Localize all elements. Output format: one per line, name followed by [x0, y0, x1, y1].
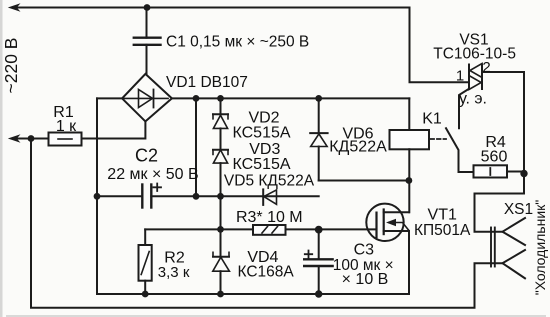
- svg-text:2: 2: [482, 59, 490, 76]
- svg-text:× 10 В: × 10 В: [342, 271, 389, 288]
- svg-text:VT1: VT1: [428, 207, 457, 224]
- svg-text:КД522А: КД522А: [329, 139, 387, 156]
- svg-text:КС515А: КС515А: [232, 156, 290, 173]
- svg-text:КП501А: КП501А: [414, 222, 471, 239]
- svg-text:560: 560: [481, 149, 508, 166]
- svg-text:XS1: XS1: [504, 201, 533, 218]
- svg-text:C2: C2: [135, 146, 158, 166]
- svg-text:ТС106-10-5: ТС106-10-5: [433, 46, 516, 63]
- svg-text:R3* 10 М: R3* 10 М: [236, 209, 303, 226]
- svg-text:1 к: 1 к: [56, 118, 77, 135]
- svg-text:~220 В: ~220 В: [1, 38, 21, 94]
- svg-text:3,3 к: 3,3 к: [158, 264, 190, 281]
- svg-text:C1 0,15 мк × ~250 В: C1 0,15 мк × ~250 В: [166, 34, 309, 51]
- svg-text:1: 1: [456, 68, 464, 85]
- svg-text:КС168А: КС168А: [237, 264, 294, 281]
- svg-text:у. э.: у. э.: [459, 91, 487, 108]
- svg-text:КС515А: КС515А: [232, 125, 290, 142]
- svg-text:VD1 DB107: VD1 DB107: [166, 74, 248, 91]
- svg-text:K1: K1: [422, 111, 442, 128]
- svg-text:VD5 КД522А: VD5 КД522А: [224, 173, 315, 190]
- svg-text:"Холодильник": "Холодильник": [532, 200, 548, 296]
- svg-text:22 мк × 50 В: 22 мк × 50 В: [107, 166, 198, 183]
